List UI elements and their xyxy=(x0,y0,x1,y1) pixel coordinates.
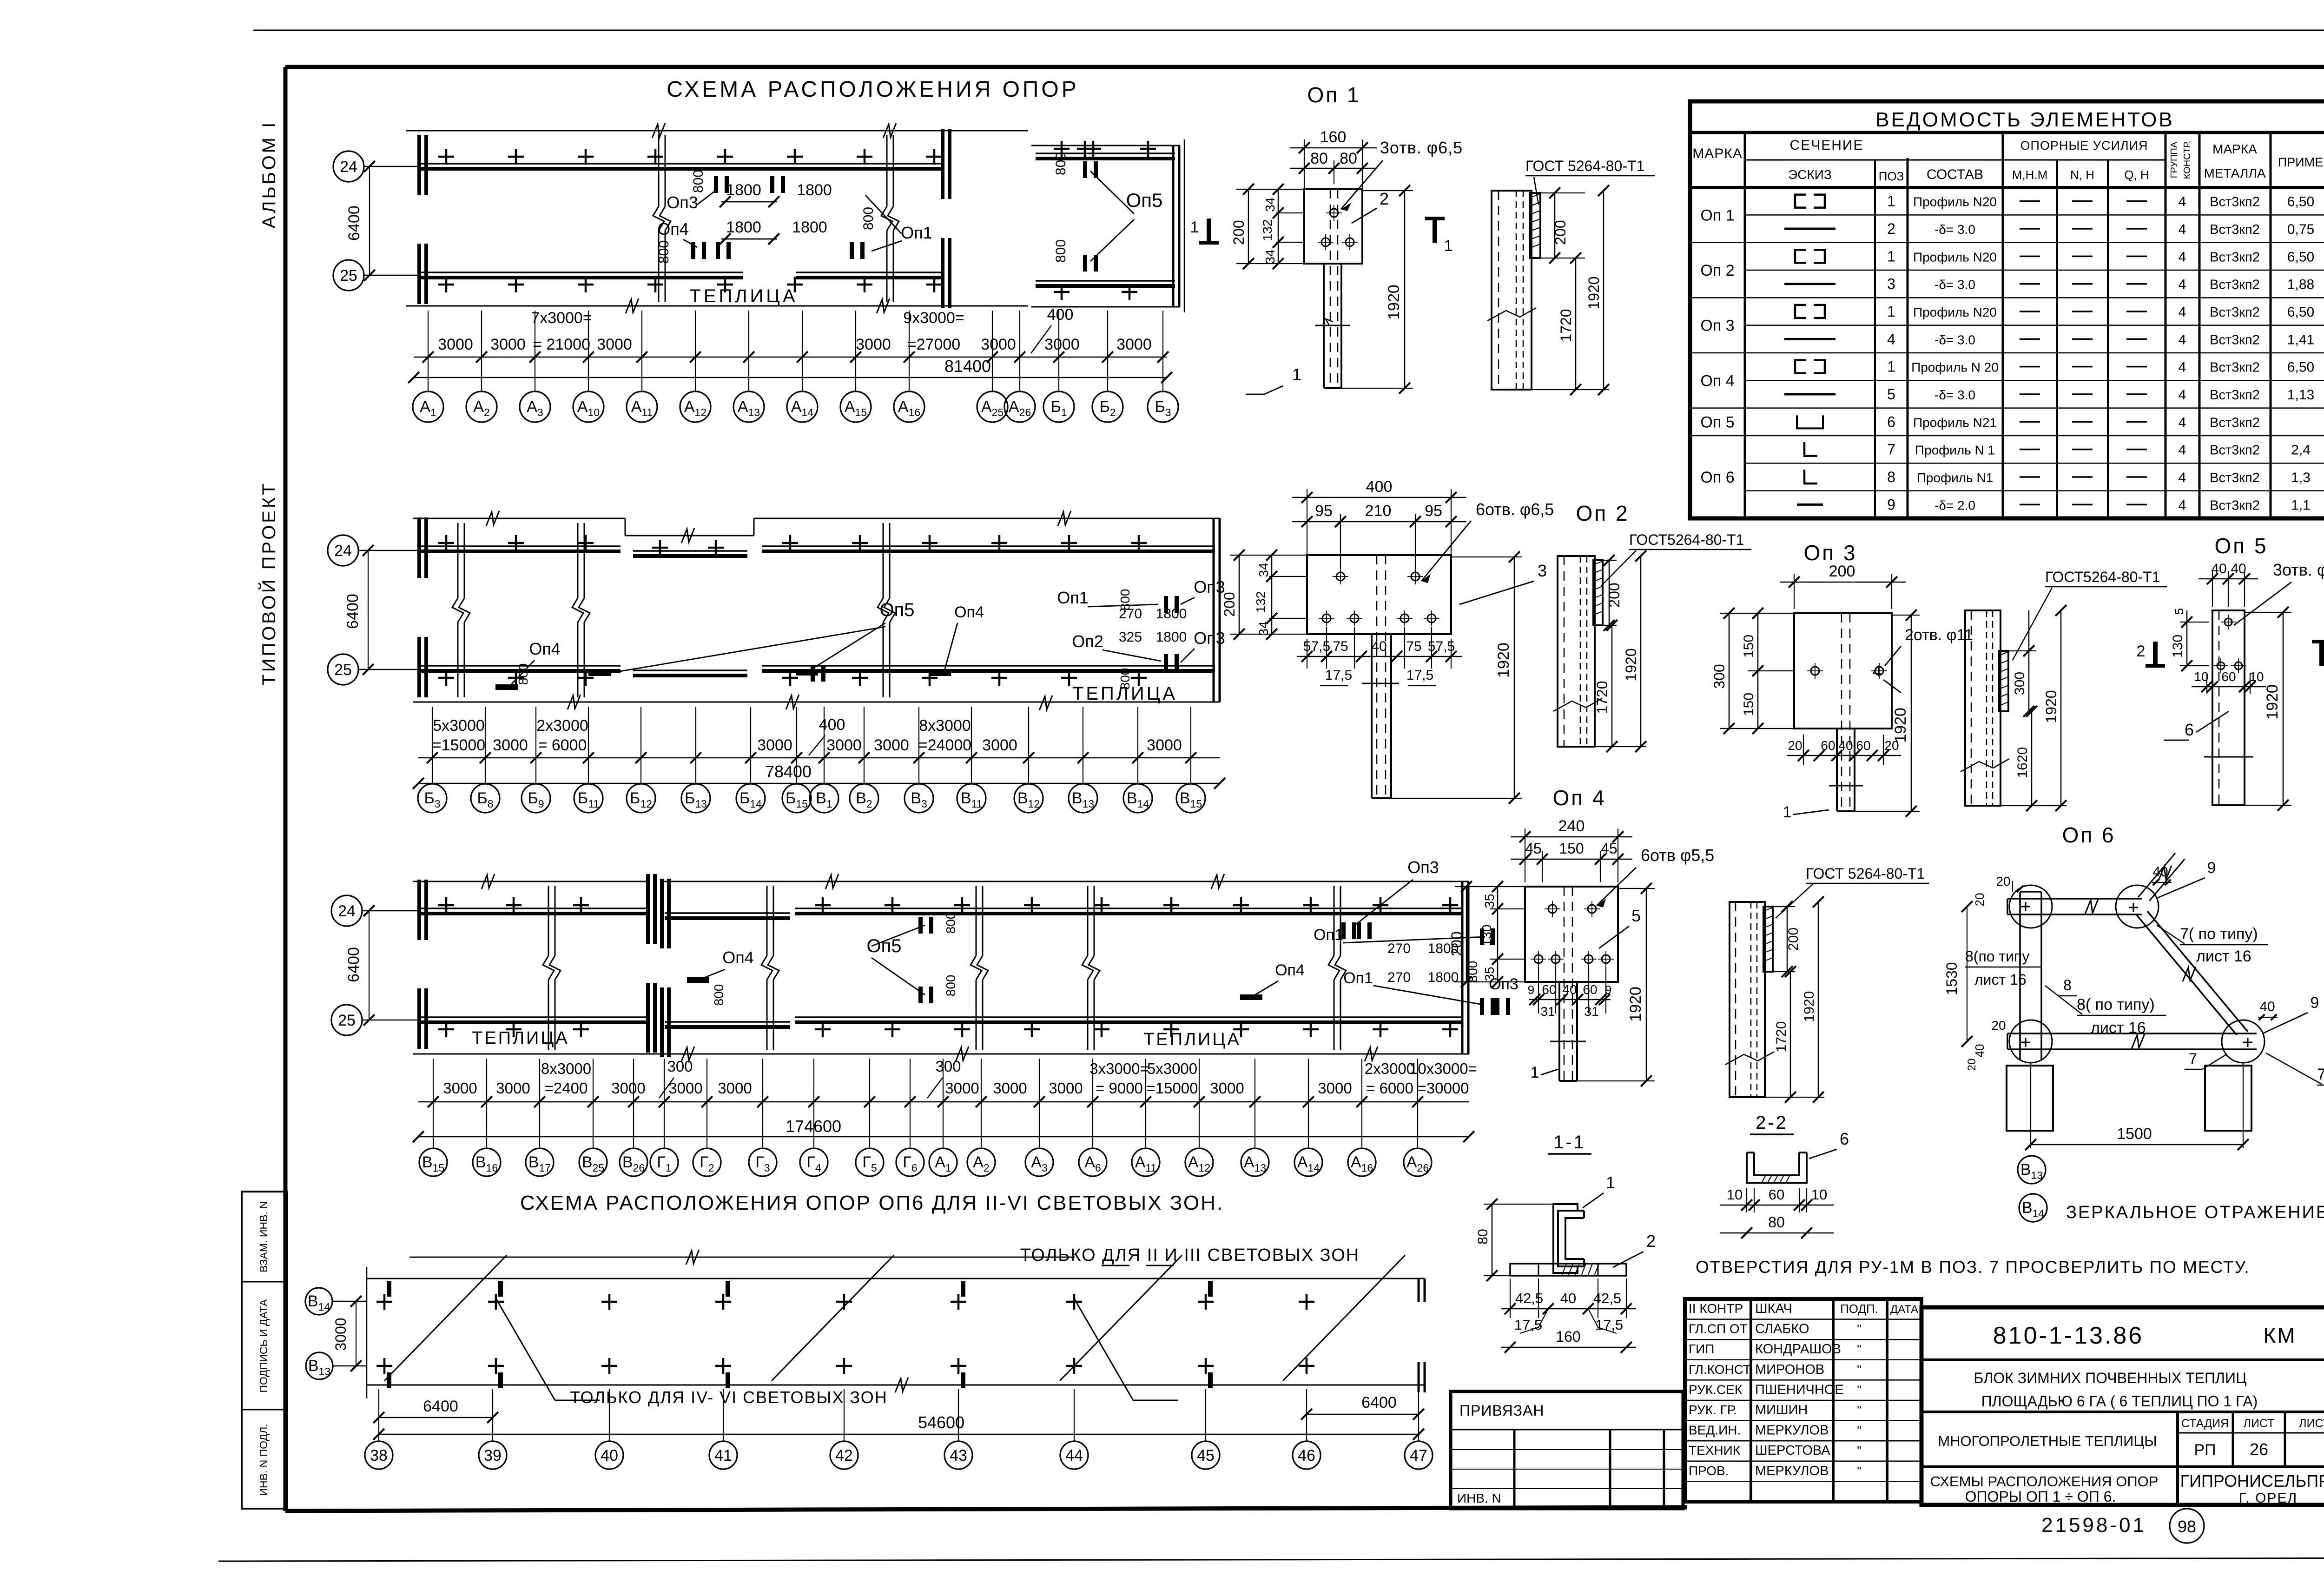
svg-text:200: 200 xyxy=(1552,220,1569,245)
svg-text:1-1: 1-1 xyxy=(1553,1132,1586,1153)
svg-text:3000: 3000 xyxy=(757,736,792,754)
svg-text:Оп 3: Оп 3 xyxy=(1700,317,1734,335)
svg-text:ТЕПЛИЦА: ТЕПЛИЦА xyxy=(1143,1030,1241,1049)
svg-text:ПРОВ.: ПРОВ. xyxy=(1689,1464,1729,1478)
title block stadia list cells xyxy=(2176,1412,2179,1505)
detail Op1 holes xyxy=(1330,209,1338,217)
svg-text:ТЕХНИК: ТЕХНИК xyxy=(1689,1443,1741,1457)
svg-text:17,5: 17,5 xyxy=(1406,668,1433,683)
svg-text:ОПОРЫ ОП 1 ÷ ОП 6.: ОПОРЫ ОП 1 ÷ ОП 6. xyxy=(1965,1488,2116,1505)
svg-text:130: 130 xyxy=(2170,635,2185,658)
strip1 support marks bold xyxy=(691,242,695,259)
svg-text:400: 400 xyxy=(819,716,845,734)
svg-text:174600: 174600 xyxy=(786,1117,841,1136)
svg-text:21598-01: 21598-01 xyxy=(2041,1514,2146,1537)
svg-text:1920: 1920 xyxy=(1623,648,1639,681)
svg-text:СОСТАВ: СОСТАВ xyxy=(1927,167,1983,182)
detail Op1 section mark 1 right xyxy=(1433,219,1437,243)
svg-text:1800: 1800 xyxy=(797,181,832,199)
svg-text:8( по типу): 8( по типу) xyxy=(2077,996,2155,1014)
svg-text:": " xyxy=(1857,1342,1861,1356)
svg-text:5x3000: 5x3000 xyxy=(433,717,485,735)
strip1 mid end walls xyxy=(941,129,944,199)
axis circle V13 bottom xyxy=(306,1352,333,1379)
detail Op1 dim 160 xyxy=(1304,139,1305,189)
detail Op4 side dims xyxy=(1773,906,1795,907)
svg-text:Оп4: Оп4 xyxy=(1275,961,1305,979)
svg-text:46: 46 xyxy=(1298,1447,1315,1464)
svg-text:1620: 1620 xyxy=(2015,747,2030,778)
strip3 upper plus row xyxy=(438,904,454,907)
svg-text:=27000: =27000 xyxy=(907,336,960,353)
svg-text:ТОЛЬКО ДЛЯ II И III СВЕТОВЫХ З: ТОЛЬКО ДЛЯ II И III СВЕТОВЫХ ЗОН xyxy=(1020,1245,1360,1265)
svg-text:39: 39 xyxy=(484,1447,502,1464)
strip2 lower plus row xyxy=(438,677,454,679)
signature table border xyxy=(1685,1299,1921,1502)
strip3 lower plus row xyxy=(438,1028,454,1031)
svg-text:1: 1 xyxy=(1887,303,1895,320)
svg-text:300: 300 xyxy=(935,1058,961,1075)
svg-text:200: 200 xyxy=(1829,563,1855,580)
svg-text:Оп 4: Оп 4 xyxy=(1700,372,1734,390)
svg-text:9: 9 xyxy=(1887,496,1895,513)
detail Op1 dim 80 80 xyxy=(1334,160,1334,184)
drawing frame left border xyxy=(284,67,288,1511)
svg-text:ПРИВЯЗАН: ПРИВЯЗАН xyxy=(1459,1402,1545,1419)
svg-text:4: 4 xyxy=(2179,360,2186,375)
detail Op2 stem column xyxy=(1371,634,1373,798)
svg-text:42: 42 xyxy=(835,1447,853,1464)
detail Op2 side plate xyxy=(1593,560,1603,625)
strip1 lower wall xyxy=(417,272,743,273)
svg-text:Вст3кп2: Вст3кп2 xyxy=(2210,443,2260,458)
svg-text:98: 98 xyxy=(2178,1517,2196,1536)
svg-text:ГИПРОНИСЕЛЬПРОМ: ГИПРОНИСЕЛЬПРОМ xyxy=(2180,1471,2324,1491)
svg-text:Вст3кп2: Вст3кп2 xyxy=(2210,332,2260,347)
svg-text:Оп 5: Оп 5 xyxy=(2214,534,2268,558)
svg-text:Профиль N20: Профиль N20 xyxy=(1913,250,1997,264)
svg-text:800: 800 xyxy=(1118,589,1132,611)
svg-text:34: 34 xyxy=(1263,249,1277,264)
detail Op2 side dims xyxy=(1603,560,1617,561)
detail Op6 joint circle top-left xyxy=(2009,885,2052,928)
axis circle V14 op6 xyxy=(2019,1194,2047,1222)
strip1 axis circles row xyxy=(413,391,443,422)
svg-text:1920: 1920 xyxy=(1892,708,1909,743)
svg-text:2: 2 xyxy=(1646,1232,1656,1251)
svg-text:150: 150 xyxy=(1559,840,1584,857)
svg-text:5: 5 xyxy=(2172,608,2186,615)
svg-text:=30000: =30000 xyxy=(1417,1080,1469,1097)
strip1 break marks xyxy=(658,135,660,206)
svg-text:Вст3кп2: Вст3кп2 xyxy=(2210,222,2260,237)
svg-text:СХЕМА РАСПОЛОЖЕНИЯ ОПОР ОП6 ДЛ: СХЕМА РАСПОЛОЖЕНИЯ ОПОР ОП6 ДЛЯ II-VI СВ… xyxy=(520,1192,1224,1214)
svg-text:1920: 1920 xyxy=(1627,987,1644,1022)
svg-text:40: 40 xyxy=(1973,1044,1987,1058)
detail Op5 dim 40 40 xyxy=(2212,571,2213,607)
detail Op2 dim 95 210 95 xyxy=(1340,514,1341,572)
svg-text:ЭСКИЗ: ЭСКИЗ xyxy=(1788,167,1832,182)
svg-text:400: 400 xyxy=(1366,478,1393,496)
svg-text:Q, Н: Q, Н xyxy=(2124,168,2149,182)
svg-text:6,50: 6,50 xyxy=(2287,194,2314,210)
bottom strip upper plus row xyxy=(376,1301,392,1303)
svg-text:10: 10 xyxy=(1811,1186,1827,1203)
strip2 dimension chain line xyxy=(418,757,1220,759)
section 2-2 U profile xyxy=(1747,1153,1807,1183)
axis circle 25 strip3 xyxy=(331,1005,362,1035)
bottom strip bottom line xyxy=(367,1385,1425,1386)
svg-text:95: 95 xyxy=(1425,502,1442,520)
detail Op6 brace break marks xyxy=(2085,899,2098,914)
svg-text:8: 8 xyxy=(1887,469,1895,485)
svg-text:Вст3кп2: Вст3кп2 xyxy=(2210,415,2260,430)
detail Op4 left dim chain xyxy=(1455,886,1525,887)
svg-text:57,5: 57,5 xyxy=(1303,639,1330,654)
svg-text:2,4: 2,4 xyxy=(2291,443,2311,458)
svg-text:Профиль N 20: Профиль N 20 xyxy=(1911,360,1999,375)
svg-text:95: 95 xyxy=(1315,502,1333,520)
svg-text:Оп5: Оп5 xyxy=(879,600,914,620)
bottom strip axis extension lines xyxy=(378,1389,379,1441)
svg-text:1800: 1800 xyxy=(726,219,761,236)
strip1 upper plus row xyxy=(438,156,454,158)
svg-text:45: 45 xyxy=(1525,840,1542,857)
svg-text:1500: 1500 xyxy=(2117,1125,2152,1143)
svg-text:ГЛ.СП ОТ: ГЛ.СП ОТ xyxy=(1689,1322,1748,1336)
section 1-1 base plate xyxy=(1510,1264,1626,1276)
detail Op6 joint circle bottom-left xyxy=(2009,1020,2052,1063)
detail Op6 diagonal stub top xyxy=(2138,853,2175,897)
strip3 axis circles row xyxy=(419,1148,447,1176)
svg-text:1920: 1920 xyxy=(1802,991,1817,1022)
bottom strip lower plus row xyxy=(376,1365,392,1367)
strip2 upper plus row xyxy=(438,542,454,544)
svg-text:6400: 6400 xyxy=(345,947,363,982)
svg-text:1: 1 xyxy=(1606,1173,1615,1192)
svg-text:4: 4 xyxy=(2179,194,2186,210)
svg-text:1: 1 xyxy=(1887,358,1895,375)
svg-text:9: 9 xyxy=(1605,983,1611,997)
strip2 support bold lower xyxy=(1164,654,1168,671)
svg-text:Оп3: Оп3 xyxy=(1194,629,1225,648)
svg-text:1920: 1920 xyxy=(2264,684,2281,720)
svg-text:2: 2 xyxy=(1380,189,1389,208)
svg-text:38: 38 xyxy=(370,1447,388,1464)
svg-text:Оп1: Оп1 xyxy=(1057,588,1089,607)
svg-text:1: 1 xyxy=(1292,365,1301,384)
svg-text:4: 4 xyxy=(2179,443,2186,458)
svg-text:3000: 3000 xyxy=(668,1080,702,1097)
svg-text:Г. ОРЕЛ: Г. ОРЕЛ xyxy=(2239,1491,2298,1506)
svg-text:=24000: =24000 xyxy=(918,736,971,754)
svg-text:3000: 3000 xyxy=(438,336,473,353)
svg-text:ПОДП.: ПОДП. xyxy=(1840,1302,1878,1316)
svg-text:17,5: 17,5 xyxy=(1325,668,1352,683)
svg-text:ГЛ.КОНСТ: ГЛ.КОНСТ xyxy=(1689,1362,1751,1377)
svg-text:Оп1: Оп1 xyxy=(1343,969,1373,987)
svg-text:ВЕД.ИН.: ВЕД.ИН. xyxy=(1689,1423,1741,1438)
detail Op4 side break mark xyxy=(1725,1052,1774,1065)
svg-text:8x3000: 8x3000 xyxy=(919,717,971,735)
svg-text:1,41: 1,41 xyxy=(2287,332,2314,347)
svg-text:3000: 3000 xyxy=(856,336,891,353)
svg-text:Профиль N 1: Профиль N 1 xyxy=(1915,443,1995,457)
svg-text:57,5: 57,5 xyxy=(1428,639,1455,654)
strip3 upper wall xyxy=(417,908,646,909)
strip1 upper wall xyxy=(417,163,944,165)
svg-text:ТИПОВОЙ ПРОЕКТ: ТИПОВОЙ ПРОЕКТ xyxy=(258,481,279,685)
elements table data rows xyxy=(1795,195,1806,208)
svg-text:Оп2: Оп2 xyxy=(1072,632,1103,651)
signature table rows xyxy=(1685,1318,1921,1320)
detail Op1 side view column xyxy=(1492,191,1532,390)
strip3 bottom boundary line xyxy=(413,1053,1469,1055)
svg-text:3000: 3000 xyxy=(874,736,909,754)
svg-text:31: 31 xyxy=(1584,1004,1598,1019)
svg-text:26: 26 xyxy=(2250,1440,2268,1459)
svg-text:2: 2 xyxy=(2137,643,2146,660)
detail Op3 stem column xyxy=(1836,729,1838,811)
strip2 support bold upper xyxy=(1164,596,1168,613)
svg-text:800: 800 xyxy=(1053,239,1069,263)
svg-text:Вст3кп2: Вст3кп2 xyxy=(2210,305,2260,320)
strip3 lower wall xyxy=(417,1016,646,1018)
svg-text:80: 80 xyxy=(1310,150,1328,167)
svg-text:3000: 3000 xyxy=(982,736,1017,754)
svg-text:24: 24 xyxy=(334,542,352,560)
svg-text:42,5: 42,5 xyxy=(1515,1290,1543,1306)
bottom strip diagonals xyxy=(384,1255,507,1381)
svg-text:200: 200 xyxy=(1230,220,1247,245)
svg-text:ШКАЧ: ШКАЧ xyxy=(1755,1301,1792,1316)
svg-text:800: 800 xyxy=(1053,152,1069,175)
svg-text:Профиль N21: Профиль N21 xyxy=(1913,415,1997,430)
svg-text:М,Н.М: М,Н.М xyxy=(2012,168,2048,182)
svg-text:4: 4 xyxy=(2179,470,2186,485)
axis circle V14 bottom xyxy=(305,1288,332,1315)
svg-text:Вст3кп2: Вст3кп2 xyxy=(2210,250,2260,265)
svg-text:Оп3: Оп3 xyxy=(667,193,698,212)
svg-text:РУК. ГР.: РУК. ГР. xyxy=(1689,1403,1737,1417)
outer border top line xyxy=(253,30,2324,31)
svg-text:34: 34 xyxy=(1256,563,1271,577)
svg-text:ИНВ. N: ИНВ. N xyxy=(1457,1491,1501,1505)
strip2 bottom boundary line xyxy=(413,702,1220,703)
svg-text:60: 60 xyxy=(1583,982,1597,997)
svg-text:1530: 1530 xyxy=(1943,962,1960,995)
svg-text:0,75: 0,75 xyxy=(2287,222,2314,237)
svg-text:40: 40 xyxy=(601,1447,618,1464)
svg-text:1920: 1920 xyxy=(2043,690,2060,723)
svg-text:3отв. φ5,5: 3отв. φ5,5 xyxy=(2273,560,2324,579)
svg-text:270: 270 xyxy=(1387,970,1411,985)
svg-text:ТЕПЛИЦА: ТЕПЛИЦА xyxy=(472,1028,569,1048)
svg-text:МЕРКУЛОВ: МЕРКУЛОВ xyxy=(1755,1464,1829,1478)
detail Op1 side break mark xyxy=(1487,308,1536,321)
strip1 left end wall xyxy=(417,135,421,195)
svg-text:6отв φ5,5: 6отв φ5,5 xyxy=(1641,846,1714,865)
svg-text:3000: 3000 xyxy=(1116,336,1152,353)
svg-text:Оп4: Оп4 xyxy=(657,219,689,238)
svg-text:9: 9 xyxy=(2311,994,2319,1012)
svg-text:": " xyxy=(1857,1424,1861,1438)
svg-text:800: 800 xyxy=(656,240,672,264)
bottom strip top line xyxy=(367,1278,1425,1279)
svg-text:КОНСТР.: КОНСТР. xyxy=(2182,141,2192,179)
svg-text:300: 300 xyxy=(667,1058,693,1075)
svg-text:60: 60 xyxy=(1821,738,1835,753)
svg-text:9: 9 xyxy=(1528,983,1534,997)
svg-text:1,88: 1,88 xyxy=(2287,277,2314,292)
svg-text:-δ= 3.0: -δ= 3.0 xyxy=(1934,222,1975,237)
svg-text:СХЕМЫ РАСПОЛОЖЕНИЯ ОПОР: СХЕМЫ РАСПОЛОЖЕНИЯ ОПОР xyxy=(1930,1473,2159,1490)
svg-text:3000: 3000 xyxy=(1147,736,1182,754)
svg-text:3000: 3000 xyxy=(332,1318,349,1351)
detail Op1 side dim 1720 xyxy=(1575,258,1577,390)
detail Op3 holes xyxy=(1811,667,1819,675)
svg-text:10: 10 xyxy=(2194,669,2208,684)
svg-text:5x3000: 5x3000 xyxy=(1147,1060,1197,1077)
svg-text:РП: РП xyxy=(2194,1441,2216,1459)
svg-text:31: 31 xyxy=(1540,1004,1555,1019)
svg-text:800: 800 xyxy=(1466,961,1480,983)
svg-text:210: 210 xyxy=(1365,502,1392,520)
drawing frame top border xyxy=(285,65,2324,69)
detail Op4 side plate xyxy=(1763,907,1773,972)
svg-text:3000: 3000 xyxy=(493,736,528,754)
svg-text:РУК.СЕК: РУК.СЕК xyxy=(1689,1382,1743,1397)
svg-text:Вст3кп2: Вст3кп2 xyxy=(2210,470,2260,485)
svg-text:ИНВ. N ПОДЛ.: ИНВ. N ПОДЛ. xyxy=(257,1424,270,1496)
section 2-2 dims 10 60 10 xyxy=(1746,1188,1747,1212)
svg-text:Оп 3: Оп 3 xyxy=(1803,541,1857,565)
svg-text:160: 160 xyxy=(1320,128,1347,146)
svg-text:": " xyxy=(1857,1403,1861,1417)
svg-text:20: 20 xyxy=(1991,1018,2006,1033)
svg-text:6: 6 xyxy=(1887,413,1895,430)
svg-text:АЛЬБОМ I: АЛЬБОМ I xyxy=(259,120,279,229)
svg-text:40: 40 xyxy=(1562,982,1577,997)
detail Op1 side dim 200 xyxy=(1540,192,1585,193)
svg-text:1720: 1720 xyxy=(1594,681,1611,714)
section 2-2 bottom infill xyxy=(1760,1175,1794,1176)
strip1 top boundary break slashes xyxy=(652,123,665,138)
svg-text:240: 240 xyxy=(1558,817,1585,835)
title block main border xyxy=(1921,1307,2324,1505)
svg-text:41: 41 xyxy=(714,1447,732,1464)
svg-text:25: 25 xyxy=(338,1012,356,1029)
detail Op2 holes xyxy=(1336,572,1345,581)
svg-text:7: 7 xyxy=(1887,441,1895,458)
svg-text:43: 43 xyxy=(950,1447,967,1464)
strip2 left end wall xyxy=(417,517,421,578)
svg-text:Профиль N20: Профиль N20 xyxy=(1913,195,1997,209)
svg-text:40: 40 xyxy=(2211,561,2226,576)
svg-text:20: 20 xyxy=(1788,738,1802,753)
section 1-1 dim 80 xyxy=(1484,1204,1553,1205)
detail Op2 bottom dim chain xyxy=(1326,627,1327,669)
svg-text:3000: 3000 xyxy=(1318,1080,1352,1097)
svg-text:80: 80 xyxy=(1475,1229,1491,1244)
svg-text:лист 16: лист 16 xyxy=(2091,1019,2146,1037)
svg-text:35: 35 xyxy=(1482,967,1497,981)
svg-text:Оп1: Оп1 xyxy=(901,223,932,242)
detail Op1 dim 1920 xyxy=(1362,190,1413,191)
svg-text:СТАДИЯ: СТАДИЯ xyxy=(2181,1417,2229,1430)
svg-text:Оп 6: Оп 6 xyxy=(2062,823,2115,847)
detail Op6 bottom chord xyxy=(2007,1033,2257,1034)
detail Op3 dim 200 top xyxy=(1794,574,1795,609)
svg-text:ПШЕНИЧНОЕ: ПШЕНИЧНОЕ xyxy=(1755,1382,1844,1397)
svg-text:1: 1 xyxy=(1531,1064,1539,1081)
svg-text:ПЛОЩАДЬЮ 6 ГА ( 6 ТЕПЛИЦ ПО 1: ПЛОЩАДЬЮ 6 ГА ( 6 ТЕПЛИЦ ПО 1 ГА) xyxy=(1981,1393,2258,1410)
svg-text:2отв. φ11: 2отв. φ11 xyxy=(1905,626,1973,644)
svg-text:2x3000: 2x3000 xyxy=(1365,1060,1415,1077)
detail Op2 side view column xyxy=(1558,556,1595,747)
svg-text:3: 3 xyxy=(1887,276,1895,292)
svg-text:1920: 1920 xyxy=(1385,285,1403,320)
detail Op3 side break mark xyxy=(1961,759,2009,772)
svg-text:ПОЗ: ПОЗ xyxy=(1879,169,1904,183)
svg-text:9: 9 xyxy=(2207,859,2216,877)
strip3 left end wall xyxy=(417,880,421,940)
svg-text:4: 4 xyxy=(2179,497,2186,513)
svg-text:20: 20 xyxy=(1973,893,1987,907)
svg-text:60: 60 xyxy=(1856,738,1870,753)
svg-text:": " xyxy=(1857,1444,1861,1457)
svg-text:Оп4: Оп4 xyxy=(722,948,754,967)
drawing frame bottom border xyxy=(285,1507,1687,1511)
svg-text:Оп4: Оп4 xyxy=(529,639,561,658)
strip2 axis extension lines xyxy=(432,707,433,784)
elements table row lines xyxy=(1745,214,2324,216)
elements table header grid xyxy=(1744,132,1746,518)
svg-text:60: 60 xyxy=(2221,669,2236,684)
strip1 axis extension lines xyxy=(428,311,429,391)
detail Op4 plate xyxy=(1525,887,1618,982)
svg-text:25: 25 xyxy=(334,661,352,679)
strip2 lower wall xyxy=(417,665,621,667)
svg-text:4: 4 xyxy=(2179,222,2186,237)
svg-text:3000: 3000 xyxy=(1210,1080,1244,1097)
svg-text:Вст3кп2: Вст3кп2 xyxy=(2210,498,2260,513)
svg-text:1: 1 xyxy=(1887,193,1895,210)
svg-text:СЛАБКО: СЛАБКО xyxy=(1755,1322,1809,1337)
strip2 top boundary line xyxy=(413,518,625,519)
svg-text:3000: 3000 xyxy=(1049,1080,1083,1097)
svg-text:8: 8 xyxy=(2063,977,2072,994)
svg-text:СХЕМА РАСПОЛОЖЕНИЯ ОПОР: СХЕМА РАСПОЛОЖЕНИЯ ОПОР xyxy=(667,77,1079,102)
svg-text:Профиль N20: Профиль N20 xyxy=(1913,305,1997,319)
detail Op4 holes xyxy=(1548,905,1557,913)
svg-text:40: 40 xyxy=(1560,1290,1576,1306)
svg-text:800: 800 xyxy=(944,975,958,997)
svg-text:3000: 3000 xyxy=(496,1080,530,1097)
svg-text:34: 34 xyxy=(1256,621,1271,636)
detail Op2 plate xyxy=(1307,555,1451,634)
detail Op1 side dim 1920 xyxy=(1603,191,1604,390)
svg-text:БЛОК ЗИМНИХ ПОЧВЕННЫХ ТЕПЛИЦ: БЛОК ЗИМНИХ ПОЧВЕННЫХ ТЕПЛИЦ xyxy=(1974,1370,2247,1386)
svg-text:7( по типу): 7( по типу) xyxy=(2180,925,2258,943)
detail Op1 plate xyxy=(1304,189,1362,264)
detail Op3 side view column xyxy=(1965,610,2000,806)
strip1 bottom boundary line xyxy=(406,305,1028,307)
bottom note leader line xyxy=(409,1257,1075,1258)
svg-text:4: 4 xyxy=(2179,415,2186,430)
detail Op6 footing axis lines xyxy=(2030,1063,2031,1148)
svg-text:3x3000=: 3x3000= xyxy=(1089,1060,1149,1077)
